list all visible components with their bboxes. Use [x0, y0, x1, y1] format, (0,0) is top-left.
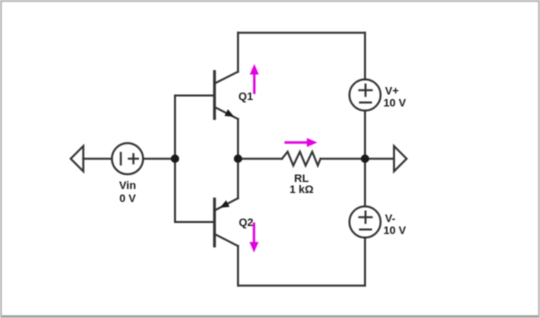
wire Q1 collector: [237, 33, 239, 72]
wire: [364, 159, 366, 207]
svg-text:V+: V+: [385, 86, 399, 98]
svg-text:Q1: Q1: [238, 91, 253, 103]
port IN: [71, 146, 84, 171]
voltage source V+: [349, 79, 380, 110]
junction emitters/output: [234, 155, 242, 163]
current arrow Q1: [250, 64, 259, 94]
voltage source Vin: [112, 143, 143, 174]
wire top rail: [238, 32, 365, 34]
svg-text:RL: RL: [294, 173, 309, 185]
wire: [83, 158, 112, 160]
wire bottom rail: [238, 285, 365, 287]
svg-text:V-: V-: [385, 213, 396, 225]
wire output node right: [321, 158, 366, 160]
transistor Q2: [215, 198, 239, 246]
junction supplies/output: [361, 155, 369, 163]
current arrow RL: [285, 138, 318, 147]
svg-text:0 V: 0 V: [119, 193, 136, 205]
wire output node left: [238, 158, 282, 160]
wire output: [365, 158, 394, 160]
wire: [143, 158, 175, 160]
svg-text:10 V: 10 V: [383, 98, 406, 110]
svg-text:Vin: Vin: [119, 180, 136, 192]
wire base bus: [174, 96, 176, 223]
svg-text:1 kΩ: 1 kΩ: [289, 184, 313, 196]
svg-text:10 V: 10 V: [383, 225, 406, 237]
transistor Q1: [215, 72, 239, 120]
wire V+ top: [364, 33, 366, 80]
svg-text:Q2: Q2: [239, 217, 254, 229]
voltage source V-: [349, 206, 380, 237]
junction input/base bus: [171, 155, 179, 163]
wire Q2 base: [175, 221, 214, 223]
wire: [364, 238, 366, 286]
current arrow Q2: [250, 223, 259, 253]
wire: [364, 111, 366, 159]
wire Q1 base: [175, 95, 214, 97]
port OUT: [394, 146, 407, 171]
wire Q2 collector: [237, 246, 239, 286]
resistor RL: [282, 152, 321, 166]
wire emitter node vertical: [237, 119, 239, 198]
